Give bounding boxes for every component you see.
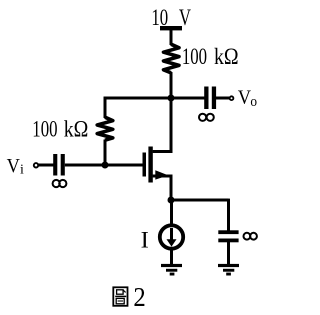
wire bypass branch down to C2 [227, 199, 230, 231]
resistor R2 [97, 117, 113, 140]
terminal Vo [230, 96, 234, 100]
svg-text:o: o [250, 95, 257, 111]
svg-text:kΩ: kΩ [64, 116, 89, 142]
terminal Vi [34, 163, 38, 167]
wire R1 to drain node [170, 72, 173, 99]
power supply +10V terminal bar [160, 26, 182, 30]
resistor R1 [164, 44, 180, 73]
wire node to left corner (gate bias branch) [104, 97, 171, 100]
ground left [161, 264, 182, 267]
node drain-output junction [168, 95, 175, 102]
wire node to current source I1 [170, 200, 173, 226]
label C3 value infinity [199, 114, 206, 121]
wire R2 to gate node [104, 140, 107, 167]
wire C2 to ground [227, 242, 230, 265]
transistor Q1 NMOS gate bar [143, 153, 147, 177]
current source I1 [160, 225, 183, 248]
wire current source to ground [170, 248, 173, 265]
ground right [218, 264, 239, 267]
wire C3 to Vo terminal [216, 97, 229, 100]
transistor Q1 NMOS channel bar [148, 147, 152, 183]
wire Vi terminal to C1 [38, 164, 53, 167]
wire source of Q1 to bottom node [153, 176, 171, 201]
svg-text:V: V [238, 87, 251, 109]
wire drain of Q1 to node [153, 98, 171, 152]
svg-text:100: 100 [32, 117, 57, 142]
svg-text:kΩ: kΩ [214, 44, 239, 70]
capacitor C3 output [204, 87, 208, 110]
svg-text:i: i [20, 163, 24, 178]
caption ideogram TU (figure) [113, 287, 127, 306]
node gate junction [102, 162, 109, 169]
svg-text:I: I [141, 228, 149, 253]
wire source node to bypass branch [171, 199, 229, 202]
label C1 value infinity [53, 180, 60, 187]
capacitor C1 input [53, 154, 57, 176]
svg-text:100: 100 [182, 45, 207, 70]
source arrowhead of Q1 [155, 170, 168, 179]
svg-text:2: 2 [133, 282, 145, 312]
node source junction [168, 197, 175, 204]
svg-text:V: V [7, 155, 20, 177]
wire C1 to gate of Q1 [65, 164, 143, 167]
wire supply bar to R1 [170, 28, 173, 45]
wire node to output capacitor [171, 97, 205, 100]
wire left branch down to R2 [104, 97, 107, 118]
label C2 value infinity [244, 233, 251, 240]
capacitor C2 bypass [218, 230, 238, 234]
